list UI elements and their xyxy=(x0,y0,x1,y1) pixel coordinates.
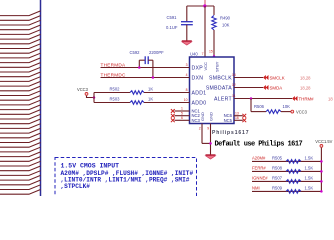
resistor R502 xyxy=(130,91,144,95)
wire C592 right lead down to THERMDC xyxy=(152,60,154,77)
svg-text:R505: R505 xyxy=(272,155,283,160)
svg-text:18: 18 xyxy=(328,96,333,101)
wire NMI pull-up xyxy=(252,190,321,192)
junction A20M#/rail xyxy=(320,160,323,163)
wire GND join horizontal xyxy=(202,142,211,144)
svg-text:R490: R490 xyxy=(220,16,231,21)
svg-text:18,28: 18,28 xyxy=(300,85,311,90)
svg-text:4: 4 xyxy=(186,73,188,77)
junction GND xyxy=(209,142,212,145)
wire C592 left lead down to THERMDA xyxy=(138,60,140,67)
resistor R503 xyxy=(130,101,144,105)
svg-text:6: 6 xyxy=(181,116,183,120)
port chevron SMDA xyxy=(263,85,269,90)
svg-text:NMI: NMI xyxy=(252,185,260,190)
wire A20M# pull-up xyxy=(252,160,321,162)
wire to R503 xyxy=(94,102,130,104)
svg-text:16: 16 xyxy=(235,116,239,120)
op IC U40 Philips NE1617 thermal sensor (body) xyxy=(190,57,235,124)
svg-text:9: 9 xyxy=(207,127,209,131)
CPU signal bus (vertical) xyxy=(40,0,42,196)
port chevron THRM# xyxy=(292,96,298,101)
wire THERMDA to DXP pin 3 xyxy=(101,67,190,69)
wire down to R506 xyxy=(250,99,252,112)
wire THERMDC to DXN pin 4 xyxy=(101,77,190,79)
junction C592/THERMDA xyxy=(138,66,141,69)
resistor R508 xyxy=(286,170,301,174)
svg-text:C592: C592 xyxy=(130,50,141,55)
svg-text:0.1UF: 0.1UF xyxy=(166,25,178,30)
bus entry wires (CPU 1.5V CMOS input signals) xyxy=(0,11,41,194)
ground symbol below C591 xyxy=(182,41,192,45)
svg-text:FERR#: FERR# xyxy=(252,165,266,170)
svg-text:ALERT: ALERT xyxy=(214,96,233,102)
svg-text:Default use Philips 1617: Default use Philips 1617 xyxy=(215,140,303,148)
wire IGNNE# pull-up xyxy=(252,180,321,182)
no-connect NC1 stub xyxy=(175,110,190,112)
svg-text:R503: R503 xyxy=(110,96,121,101)
resistor R509 xyxy=(286,190,301,194)
svg-text:8: 8 xyxy=(186,88,188,92)
svg-text:ADD1: ADD1 xyxy=(192,90,207,96)
svg-text:ADD0: ADD0 xyxy=(192,100,207,106)
capacitor C592 2200PF xyxy=(139,56,153,64)
svg-text:DXN: DXN xyxy=(192,75,204,81)
X mark NC5 xyxy=(242,118,246,122)
no-connect NC5 stub xyxy=(234,119,243,121)
svg-text:THERMDC: THERMDC xyxy=(101,72,127,77)
svg-text:10: 10 xyxy=(184,98,188,102)
svg-text:7: 7 xyxy=(202,52,204,56)
wire R503 to ADD0 pin 10 xyxy=(144,102,190,104)
svg-text:SMDA: SMDA xyxy=(270,85,283,90)
svg-text:VCC3: VCC3 xyxy=(296,109,308,114)
wire to R506 xyxy=(251,111,266,113)
svg-text:12: 12 xyxy=(232,83,236,87)
resistor R490 (vertical) xyxy=(213,6,215,15)
junction ALERT/pull-up xyxy=(250,97,253,100)
svg-text:A20M#: A20M# xyxy=(252,155,266,160)
no-connect NC2 stub xyxy=(175,115,190,117)
power symbol VCC3 (right) xyxy=(291,109,308,114)
svg-text:R508: R508 xyxy=(272,165,283,170)
svg-text:1.5K: 1.5K xyxy=(305,185,314,190)
wire R506 to VCC3 xyxy=(281,111,291,113)
svg-text:THRM#: THRM# xyxy=(299,96,315,101)
svg-text:10K: 10K xyxy=(283,104,291,109)
wire to R502 xyxy=(94,92,130,94)
svg-text:VCC3: VCC3 xyxy=(77,87,89,92)
wire R502 to ADD1 pin 8 xyxy=(144,92,190,94)
svg-text:GND: GND xyxy=(200,112,205,121)
svg-text:,STPCLK#: ,STPCLK# xyxy=(61,183,91,190)
junction VCC3 split xyxy=(93,96,96,99)
junction FERR#/rail xyxy=(320,170,323,173)
svg-text:11: 11 xyxy=(232,94,236,98)
svg-text:1: 1 xyxy=(181,107,183,111)
wire ALERT pin 11 to THRM# port xyxy=(234,98,292,100)
junction C592/THERMDC xyxy=(152,76,155,79)
svg-text:1K: 1K xyxy=(148,86,153,91)
resistor R506 xyxy=(266,110,281,114)
ground symbol below IC xyxy=(206,155,216,159)
X mark NC6 xyxy=(242,114,246,118)
wire: VCC3 feed vertical to top edge xyxy=(204,0,206,6)
svg-text:U40: U40 xyxy=(190,52,198,57)
capacitor C591 0.1UF xyxy=(181,6,193,41)
svg-text:1K: 1K xyxy=(148,96,153,101)
svg-text:3: 3 xyxy=(186,63,188,67)
port chevron SMCLK xyxy=(263,75,269,80)
svg-text:THERMDA: THERMDA xyxy=(101,62,127,67)
svg-text:15: 15 xyxy=(209,49,213,53)
resistor R505 xyxy=(286,160,301,164)
note box: 1.5V CMOS INPUT xyxy=(55,158,197,203)
junction at top power node xyxy=(203,4,206,7)
svg-text:SMBDATA: SMBDATA xyxy=(206,85,232,91)
junction IGNNE#/rail xyxy=(320,180,323,183)
wire: VCC node to VCC pin xyxy=(204,6,206,57)
wire VCC3 to resistor split xyxy=(87,96,95,98)
svg-text:STBY: STBY xyxy=(214,61,219,72)
svg-text:10K: 10K xyxy=(222,23,230,28)
X mark NC1 xyxy=(171,109,175,113)
svg-text:2: 2 xyxy=(199,127,201,131)
resistor R507 xyxy=(286,180,301,184)
svg-text:1.5K: 1.5K xyxy=(305,175,314,180)
svg-text:GND: GND xyxy=(208,112,213,121)
svg-text:14: 14 xyxy=(232,73,236,77)
svg-text:13: 13 xyxy=(235,111,239,115)
wire: R490 to STBY pin xyxy=(213,30,215,57)
svg-text:18,28: 18,28 xyxy=(300,75,311,80)
svg-text:R502: R502 xyxy=(110,86,121,91)
wire VCC1.5V rail vertical xyxy=(320,148,322,192)
wire GND pin 9 down xyxy=(210,124,212,156)
svg-text:R509: R509 xyxy=(272,185,283,190)
svg-text:R506: R506 xyxy=(254,104,265,109)
power symbol VCC1.5V xyxy=(315,139,332,147)
wire SMBCLK pin 14 xyxy=(234,77,263,79)
svg-text:VCC: VCC xyxy=(203,62,208,71)
svg-text:5: 5 xyxy=(181,111,183,115)
X mark NC3 xyxy=(171,118,175,122)
no-connect NC3 stub xyxy=(175,119,190,121)
wire split vertical xyxy=(93,93,95,103)
X mark NC2 xyxy=(171,114,175,118)
svg-text:VCC1.5V: VCC1.5V xyxy=(315,139,332,144)
svg-text:Philips1617: Philips1617 xyxy=(212,130,249,136)
svg-text:1.5K: 1.5K xyxy=(305,165,314,170)
svg-text:1.5V CMOS INPUT: 1.5V CMOS INPUT xyxy=(61,162,120,169)
svg-text:C591: C591 xyxy=(167,15,178,20)
wire FERR# pull-up xyxy=(252,170,321,172)
no-connect NC6 stub xyxy=(234,115,243,117)
pin dot at STBY entry xyxy=(213,55,215,57)
svg-text:2200PF: 2200PF xyxy=(149,50,164,55)
wire GND pin 2 down xyxy=(201,124,203,144)
svg-text:SMCLK: SMCLK xyxy=(270,75,285,80)
wire SMBDATA pin 12 xyxy=(234,87,263,89)
svg-text:DXP: DXP xyxy=(192,65,204,71)
junction NMI/rail xyxy=(320,190,323,193)
svg-text:IGNNE#: IGNNE# xyxy=(252,175,268,180)
wire: top horizontal C591/R490 xyxy=(187,5,214,7)
svg-text:SMBCLK: SMBCLK xyxy=(209,75,232,81)
power symbol VCC3 (left) xyxy=(77,87,89,95)
svg-text:1.5K: 1.5K xyxy=(305,155,314,160)
svg-text:R507: R507 xyxy=(272,175,283,180)
svg-text:NC5: NC5 xyxy=(224,118,233,123)
